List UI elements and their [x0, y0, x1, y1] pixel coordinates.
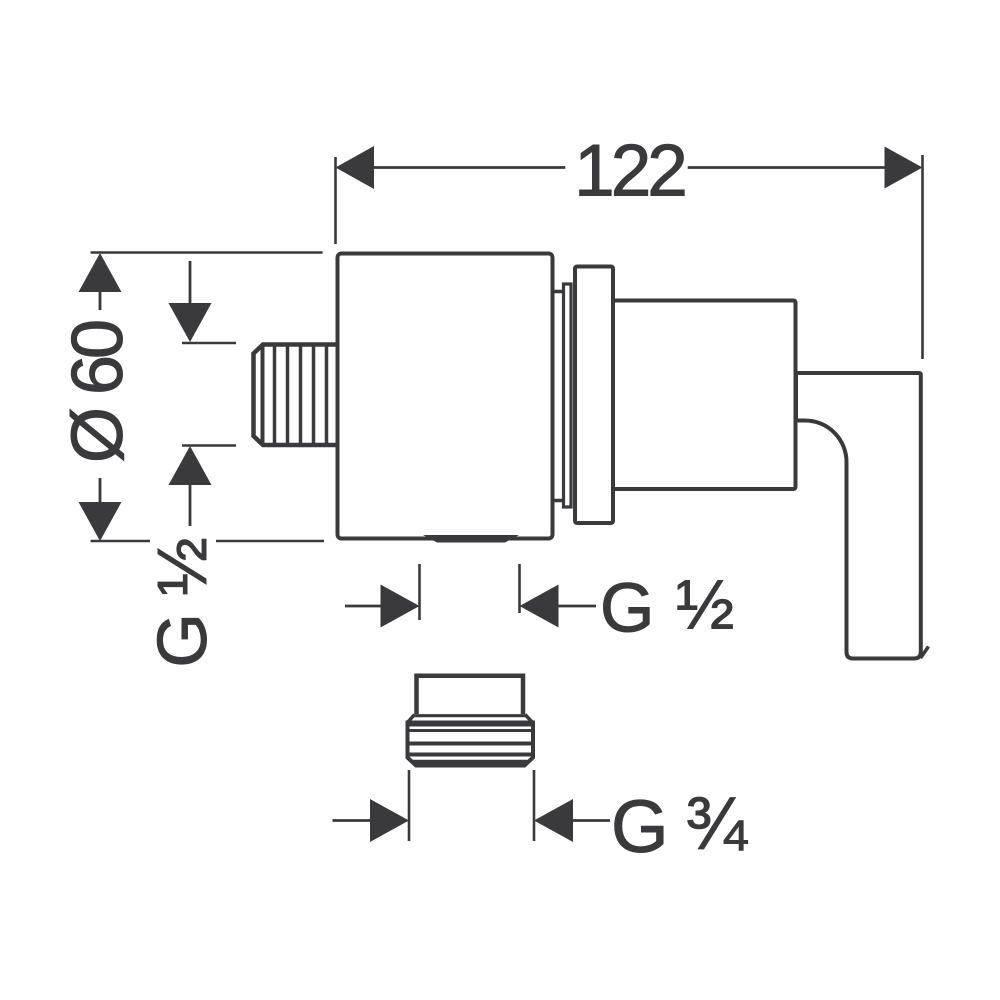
collar flare left — [408, 715, 415, 723]
G 3/4 nut outline — [408, 723, 534, 766]
thread chamfer ridge — [261, 345, 265, 445]
dim 122 left extension line — [334, 157, 337, 244]
thread line 5 — [325, 347, 329, 444]
valve body — [338, 254, 553, 539]
nut thread line 3 — [409, 753, 532, 757]
svg-text:G ½: G ½ — [143, 538, 221, 667]
thread line 2 — [286, 347, 290, 444]
thread line 3 — [299, 347, 303, 444]
neck top edge — [553, 290, 565, 294]
thread lower arrow — [169, 446, 212, 485]
G 3/4 dim left arrow — [370, 799, 409, 842]
neck bottom edge — [553, 499, 565, 503]
bottom outlet stub — [423, 535, 519, 543]
svg-text:G ½: G ½ — [600, 566, 735, 647]
thread line 4 — [312, 347, 316, 444]
dia 60 dim line upper — [99, 291, 102, 310]
outlet dim right extension line — [518, 564, 521, 613]
thread lower arrow tail — [189, 483, 192, 526]
thread upper arrow — [169, 303, 212, 342]
G 3/4 connector upper collar — [417, 676, 524, 714]
nut thread line 2 — [409, 742, 532, 746]
thread bottom tick — [182, 444, 236, 447]
outlet dim right arrow — [520, 585, 559, 628]
dim 122 arrow right — [885, 147, 923, 189]
G 3/4 dim left arrow tail — [333, 819, 372, 822]
outlet dim left arrow tail — [345, 605, 382, 608]
dim 122 line right — [688, 166, 886, 169]
collar bottom edge — [415, 714, 526, 717]
narrow ring — [564, 284, 572, 507]
dia 60 arrow up — [79, 253, 122, 292]
G 3/4 dim left extension line — [408, 770, 411, 841]
G 3/4 dim right arrow tail — [572, 819, 611, 822]
outlet dim left extension line — [418, 564, 421, 620]
dia 60 arrow down — [79, 502, 122, 541]
G 1/2 inlet thread (left) — [254, 345, 338, 446]
thread line 1 — [273, 347, 277, 444]
G 3/4 dim right extension line — [533, 770, 536, 841]
thread upper arrow tail — [189, 261, 192, 305]
nut bottom band — [413, 760, 528, 766]
handle lever — [796, 373, 921, 659]
G 3/4 dim right arrow — [534, 799, 573, 842]
svg-text:Ø 60: Ø 60 — [58, 321, 138, 463]
outlet dim right arrow tail — [557, 605, 596, 608]
dia 60 top extension line — [91, 251, 323, 254]
nut top band — [408, 722, 534, 727]
handle corner flick — [921, 647, 929, 659]
dim 122 right extension line — [921, 155, 924, 359]
svg-text:122: 122 — [574, 131, 684, 212]
svg-text:G ¾: G ¾ — [611, 782, 748, 868]
outlet dim left arrow — [381, 585, 420, 628]
collar flare right — [525, 715, 533, 723]
dia 60 dim line lower — [99, 478, 102, 503]
thread top tick — [182, 342, 236, 345]
cartridge stem — [613, 301, 796, 490]
nut thread line 1 — [409, 729, 532, 732]
dim 122 line left — [372, 166, 565, 169]
dim 122 arrow left — [336, 146, 375, 189]
dia 60 bottom extension line — [91, 540, 324, 543]
escutcheon ring — [575, 267, 613, 524]
